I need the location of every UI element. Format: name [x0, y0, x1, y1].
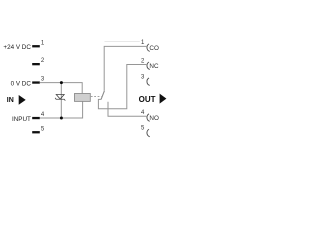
terminal 4 left bar	[32, 117, 40, 119]
wire pole to CO terminal	[104, 46, 146, 90]
svg-text:CO: CO	[149, 45, 159, 52]
socket contact 1 right	[147, 44, 150, 52]
OUT arrow	[160, 94, 167, 104]
suppressor diode V1 cathode bar	[55, 98, 65, 101]
terminal 2 left bar	[32, 63, 40, 65]
junction node A	[60, 81, 63, 84]
contact blade	[101, 91, 104, 100]
IN arrow	[19, 95, 26, 105]
svg-text:INPUT: INPUT	[12, 116, 31, 123]
wire INPUT rail to coil bottom	[40, 101, 83, 118]
svg-text:0 V DC: 0 V DC	[11, 80, 32, 87]
terminal 3 left bar	[32, 81, 40, 83]
svg-text:IN: IN	[7, 97, 14, 104]
suppressor diode V1 triangle	[56, 95, 64, 100]
ghost line above CO wire	[105, 40, 140, 42]
terminal 5 left bar	[32, 131, 40, 133]
socket contact 4 right	[147, 114, 150, 122]
NC contact and wire to NC terminal	[98, 65, 146, 109]
svg-text:NC: NC	[149, 63, 159, 70]
relay coil K1	[75, 94, 91, 102]
junction node B	[60, 117, 63, 120]
svg-text:OUT: OUT	[139, 95, 156, 104]
svg-text:+24 V DC: +24 V DC	[3, 44, 31, 51]
svg-text:NO: NO	[149, 115, 159, 122]
socket contact 2 right	[147, 62, 150, 70]
mechanical link dashed	[91, 96, 102, 98]
socket contact 3 right	[147, 78, 150, 86]
wire diode branch	[60, 83, 62, 118]
terminal 1 left bar	[32, 45, 40, 47]
NO contact and wire to NO terminal	[108, 102, 146, 117]
wire 0VDC rail to coil top	[40, 83, 82, 94]
socket contact 5 right	[147, 129, 150, 137]
